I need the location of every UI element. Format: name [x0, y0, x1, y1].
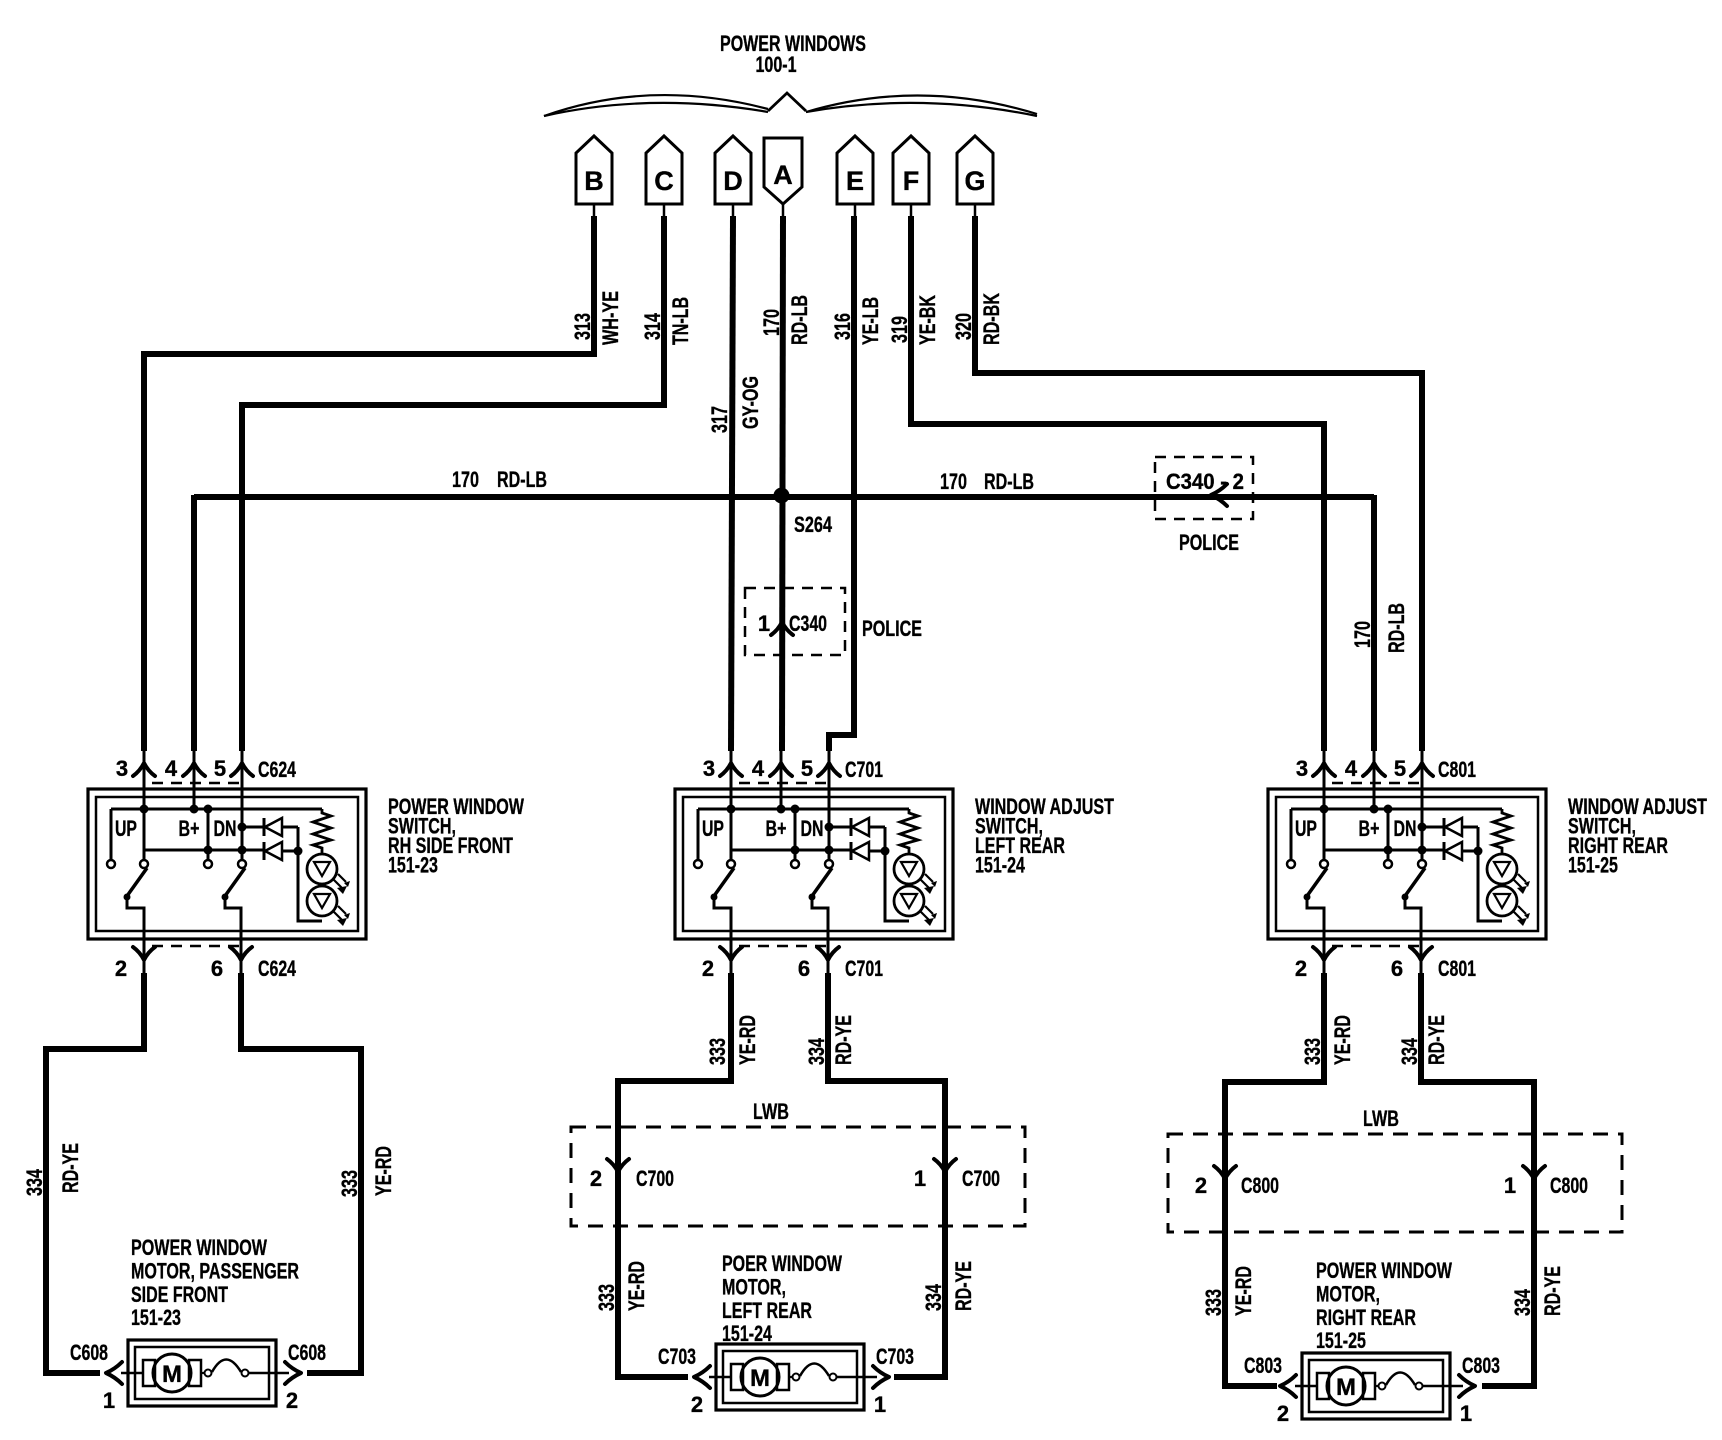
svg-text:316: 316	[830, 313, 855, 340]
svg-text:314: 314	[640, 312, 665, 340]
SW3 name label	[1568, 794, 1707, 878]
SW1 pin 3	[116, 751, 155, 860]
SW2 pin 6	[798, 947, 839, 981]
svg-text:MOTOR,: MOTOR,	[1316, 1281, 1380, 1306]
svg-text:317: 317	[707, 406, 732, 433]
svg-text:C700: C700	[636, 1166, 674, 1191]
SW3 lamp feed wire	[1474, 827, 1503, 921]
SW3 pin 4	[1345, 751, 1385, 809]
svg-text:M: M	[1336, 1374, 1356, 1401]
brace over connectors	[544, 93, 1037, 116]
SW1 UP pole contact	[140, 860, 148, 868]
connector C703 right arrow	[873, 1344, 914, 1417]
wire 319 YE-BK	[887, 216, 1324, 751]
SW3 diode D2	[1444, 842, 1478, 860]
svg-text:TN-LB: TN-LB	[668, 297, 693, 345]
svg-text:C608: C608	[288, 1340, 326, 1365]
SW2 B+ bus wire	[698, 808, 909, 811]
svg-text:SIDE FRONT: SIDE FRONT	[131, 1282, 228, 1307]
SW1 resistor	[313, 809, 331, 854]
M2 lead-in wires	[709, 1376, 877, 1379]
SW1 B+ center contact stub	[204, 809, 212, 868]
svg-text:B+: B+	[766, 816, 787, 841]
svg-text:RD-YE: RD-YE	[1540, 1266, 1565, 1316]
M3 brushes	[1317, 1373, 1375, 1399]
connector C608 left arrow	[70, 1340, 122, 1413]
svg-text:320: 320	[951, 313, 976, 340]
svg-text:RD-YE: RD-YE	[1424, 1015, 1449, 1065]
svg-text:333: 333	[705, 1038, 730, 1065]
SW3 lamp L2	[1487, 886, 1530, 926]
svg-text:RD-LB: RD-LB	[984, 469, 1034, 494]
SW3 crossbar wire	[1324, 849, 1445, 852]
connector pin C	[646, 136, 682, 217]
svg-text:DN: DN	[801, 816, 824, 841]
M3 armature M	[1327, 1367, 1365, 1405]
wire 170 RD-LB from pin A	[759, 216, 812, 751]
SW1 DN switch arm	[222, 868, 246, 973]
svg-text:151-23: 151-23	[131, 1305, 181, 1330]
svg-text:C624: C624	[258, 757, 297, 782]
SW1 B+ bus wire	[111, 808, 322, 811]
harness LWB right (C800)	[1168, 1106, 1622, 1232]
svg-text:LWB: LWB	[1363, 1106, 1399, 1131]
connector C624 dashed boundary top	[152, 782, 243, 785]
SW1 DN pole contact	[238, 860, 246, 868]
svg-text:2: 2	[1295, 956, 1307, 981]
SW1 name label	[388, 794, 524, 878]
svg-text:3: 3	[116, 756, 128, 781]
svg-text:C700: C700	[962, 1166, 1000, 1191]
svg-text:C703: C703	[876, 1344, 914, 1369]
svg-text:333: 333	[594, 1284, 619, 1311]
connector C700 pin 2	[590, 1159, 674, 1191]
connector C800 pin 2	[1195, 1166, 1279, 1198]
svg-text:333: 333	[1300, 1038, 1325, 1065]
SW3 UP switch arm	[1304, 868, 1328, 973]
SW3 pin 6	[1391, 947, 1432, 981]
M2 commutator terminals and jumper	[789, 1364, 837, 1381]
connector pin E	[837, 136, 873, 217]
svg-text:GY-OG: GY-OG	[738, 376, 763, 429]
svg-text:1: 1	[758, 611, 770, 636]
svg-text:170: 170	[940, 469, 967, 494]
wire 317 GY-OG	[707, 216, 763, 751]
svg-text:D: D	[723, 166, 743, 196]
SW3 pin 3	[1296, 751, 1335, 860]
wire 334 RD-YE left column	[22, 973, 144, 1373]
svg-text:C803: C803	[1244, 1353, 1282, 1378]
SW2 diode D1	[829, 818, 885, 836]
svg-text:POLICE: POLICE	[1179, 530, 1239, 555]
SW3 B+ center contact stub	[1384, 809, 1392, 868]
SW3 pin 5	[1394, 751, 1433, 860]
svg-text:2: 2	[702, 956, 714, 981]
SW3 DN switch arm	[1402, 868, 1426, 973]
svg-text:POER WINDOW: POER WINDOW	[722, 1251, 842, 1276]
svg-text:RD-LB: RD-LB	[1384, 603, 1409, 653]
svg-text:YE-RD: YE-RD	[1231, 1266, 1256, 1316]
svg-text:4: 4	[752, 756, 765, 781]
svg-text:6: 6	[798, 956, 810, 981]
svg-text:A: A	[773, 160, 793, 190]
SW2 resistor	[900, 809, 918, 854]
wire 313 WH-YE	[144, 216, 623, 751]
splice S264	[774, 488, 833, 538]
connector C701 dashed boundary top	[739, 782, 830, 785]
SW2 UP left throw contact	[694, 809, 702, 868]
SW2 body box	[675, 789, 953, 939]
svg-text:C801: C801	[1438, 956, 1476, 981]
SW1 pin 2	[115, 947, 155, 981]
svg-text:YE-RD: YE-RD	[371, 1146, 396, 1196]
svg-text:334: 334	[921, 1283, 946, 1311]
SW1 pin 4	[165, 751, 205, 809]
connector C624 dashed boundary bottom	[152, 945, 240, 948]
svg-text:UP: UP	[1295, 816, 1317, 841]
SW2 junction dots	[727, 805, 834, 855]
svg-text:C608: C608	[70, 1340, 108, 1365]
wire 334 RD-YE right column	[1397, 973, 1565, 1386]
svg-text:C703: C703	[658, 1344, 696, 1369]
SW2 pin 3	[703, 751, 742, 860]
svg-text:1: 1	[874, 1392, 886, 1417]
SW1 diode D1	[242, 818, 298, 836]
svg-text:170: 170	[1350, 621, 1375, 648]
svg-text:4: 4	[1345, 756, 1358, 781]
SW3 DN pole contact	[1418, 860, 1426, 868]
svg-text:2: 2	[691, 1392, 703, 1417]
SW2 B+ center contact stub	[791, 809, 799, 868]
svg-text:C800: C800	[1550, 1173, 1588, 1198]
SW3 B+ bus wire	[1291, 808, 1502, 811]
svg-text:RIGHT REAR: RIGHT REAR	[1316, 1305, 1416, 1330]
svg-text:170: 170	[759, 309, 784, 336]
svg-text:M: M	[750, 1365, 770, 1392]
svg-text:M: M	[162, 1361, 182, 1388]
svg-text:151-23: 151-23	[388, 853, 438, 878]
M3 body box	[1302, 1353, 1450, 1419]
svg-text:DN: DN	[214, 816, 237, 841]
svg-text:334: 334	[804, 1037, 829, 1065]
title POWER WINDOWS 100-1	[720, 31, 866, 77]
svg-text:5: 5	[801, 756, 813, 781]
M1 brushes	[143, 1360, 201, 1386]
svg-text:RD-YE: RD-YE	[951, 1261, 976, 1311]
M1 body box	[128, 1340, 276, 1406]
svg-text:RD-LB: RD-LB	[497, 467, 547, 492]
SW3 resistor	[1493, 809, 1511, 854]
svg-text:C801: C801	[1438, 757, 1476, 782]
connector pin A	[764, 138, 802, 217]
connector C803 right arrow	[1459, 1353, 1500, 1426]
SW1 lamp feed wire	[294, 827, 323, 921]
svg-text:UP: UP	[115, 816, 137, 841]
svg-text:YE-LB: YE-LB	[858, 297, 883, 345]
M3 lead-in wires	[1295, 1385, 1463, 1388]
SW1 pin 5	[214, 751, 253, 860]
SW2 DN switch arm	[809, 868, 833, 973]
M1 commutator terminals and jumper	[201, 1360, 249, 1377]
wire 170 RD-LB bus horizontal	[194, 467, 1409, 751]
svg-text:C803: C803	[1462, 1353, 1500, 1378]
svg-text:C340: C340	[789, 611, 827, 636]
connector C701 dashed boundary bottom	[739, 945, 827, 948]
svg-text:C340 - 2: C340 - 2	[1166, 469, 1244, 494]
SW2 name label	[975, 794, 1114, 878]
svg-text:F: F	[903, 166, 920, 196]
svg-text:313: 313	[570, 313, 595, 340]
svg-text:2: 2	[1277, 1401, 1289, 1426]
SW1 junction dots	[140, 805, 247, 855]
svg-text:334: 334	[1510, 1288, 1535, 1316]
SW2 DN pole contact	[825, 860, 833, 868]
connector C608 right arrow	[285, 1340, 326, 1413]
connector pin F	[893, 136, 929, 217]
svg-text:1: 1	[1504, 1173, 1516, 1198]
svg-text:151-24: 151-24	[722, 1321, 773, 1346]
SW2 UP pole contact	[727, 860, 735, 868]
connector C800 pin 1	[1504, 1166, 1588, 1198]
svg-text:334: 334	[22, 1168, 47, 1196]
SW1 lamp L2	[307, 886, 350, 926]
svg-text:YE-RD: YE-RD	[735, 1015, 760, 1065]
svg-text:E: E	[846, 166, 864, 196]
harness LWB center (C700)	[571, 1099, 1025, 1226]
svg-text:C800: C800	[1241, 1173, 1279, 1198]
SW2 lamp L1	[894, 854, 937, 894]
svg-text:4: 4	[165, 756, 178, 781]
svg-text:319: 319	[887, 316, 912, 343]
svg-text:RD-YE: RD-YE	[831, 1015, 856, 1065]
SW2 pin 2	[702, 947, 742, 981]
svg-text:C701: C701	[845, 757, 883, 782]
svg-text:G: G	[964, 166, 985, 196]
svg-text:MOTOR,: MOTOR,	[722, 1274, 786, 1299]
svg-text:YE-RD: YE-RD	[624, 1261, 649, 1311]
svg-text:333: 333	[1201, 1289, 1226, 1316]
connector C801 dashed boundary bottom	[1332, 945, 1420, 948]
svg-text:C624: C624	[258, 956, 297, 981]
svg-text:LWB: LWB	[753, 1099, 789, 1124]
svg-text:B: B	[584, 166, 604, 196]
M1 lead-in wires	[121, 1372, 289, 1375]
M3 commutator terminals and jumper	[1375, 1373, 1423, 1390]
wire 333 YE-RD left column	[241, 973, 396, 1373]
SW3 pin 2	[1295, 947, 1335, 981]
svg-text:UP: UP	[702, 816, 724, 841]
SW1 lamp L1	[307, 854, 350, 894]
svg-text:RD-YE: RD-YE	[58, 1143, 83, 1193]
connector pin D	[715, 136, 751, 217]
wire 333 YE-RD center column	[594, 973, 760, 1377]
connector pin G	[957, 136, 993, 217]
svg-text:1: 1	[914, 1166, 926, 1191]
svg-text:RD-LB: RD-LB	[787, 295, 812, 345]
svg-text:WH-YE: WH-YE	[598, 291, 623, 345]
M1 armature M	[153, 1354, 191, 1392]
svg-text:DN: DN	[1394, 816, 1417, 841]
SW3 UP pole contact	[1320, 860, 1328, 868]
svg-text:B+: B+	[1359, 816, 1380, 841]
M2 armature M	[741, 1358, 779, 1396]
svg-text:1: 1	[103, 1388, 115, 1413]
svg-text:333: 333	[337, 1170, 362, 1197]
M1 name label	[131, 1235, 299, 1330]
SW2 lamp L2	[894, 886, 937, 926]
SW1 UP left throw contact	[107, 809, 115, 868]
svg-text:151-25: 151-25	[1316, 1328, 1366, 1353]
svg-text:6: 6	[211, 956, 223, 981]
svg-text:2: 2	[286, 1388, 298, 1413]
svg-text:YE-BK: YE-BK	[915, 295, 940, 345]
M2 name label	[722, 1251, 842, 1346]
svg-text:C: C	[654, 166, 674, 196]
svg-text:334: 334	[1397, 1037, 1422, 1065]
svg-text:B+: B+	[179, 816, 200, 841]
svg-text:MOTOR, PASSENGER: MOTOR, PASSENGER	[131, 1258, 299, 1283]
wire 316 YE-LB	[829, 216, 883, 751]
M3 name label	[1316, 1258, 1452, 1353]
wire 334 RD-YE center column	[804, 973, 976, 1377]
svg-text:S264: S264	[794, 512, 833, 537]
wire 314 TN-LB	[242, 216, 693, 751]
svg-text:5: 5	[214, 756, 226, 781]
svg-text:3: 3	[703, 756, 715, 781]
connector C700 pin 1	[914, 1159, 1000, 1191]
connector C703 left arrow	[658, 1344, 710, 1417]
M2 body box	[716, 1344, 864, 1410]
svg-text:2: 2	[1195, 1173, 1207, 1198]
SW3 lamp L1	[1487, 854, 1530, 894]
SW3 diode D1	[1422, 818, 1478, 836]
SW2 UP switch arm	[711, 868, 735, 973]
SW1 UP switch arm	[124, 868, 148, 973]
svg-text:3: 3	[1296, 756, 1308, 781]
svg-text:LEFT REAR: LEFT REAR	[722, 1298, 812, 1323]
svg-text:1: 1	[1460, 1401, 1472, 1426]
wire 320 RD-BK	[951, 216, 1422, 751]
SW1 crossbar wire	[144, 849, 265, 852]
svg-text:RD-BK: RD-BK	[979, 293, 1004, 345]
svg-text:5: 5	[1394, 756, 1406, 781]
M2 brushes	[731, 1364, 789, 1390]
SW2 diode D2	[851, 842, 885, 860]
SW1 diode D2	[264, 842, 298, 860]
svg-text:151-25: 151-25	[1568, 853, 1618, 878]
SW2 pin 5	[801, 751, 840, 860]
connector C801 dashed boundary top	[1332, 782, 1423, 785]
svg-text:POWER WINDOW: POWER WINDOW	[1316, 1258, 1452, 1283]
SW3 body box	[1268, 789, 1546, 939]
svg-text:C701: C701	[845, 956, 883, 981]
svg-text:2: 2	[115, 956, 127, 981]
svg-text:POLICE: POLICE	[862, 616, 922, 641]
connector C340 pin 1 (POLICE)	[745, 588, 922, 655]
svg-text:6: 6	[1391, 956, 1403, 981]
svg-text:100-1: 100-1	[756, 52, 797, 77]
connector C803 left arrow	[1244, 1353, 1296, 1426]
connector pin B	[576, 136, 612, 217]
connector C340 pin 2 (POLICE)	[1155, 457, 1253, 555]
SW3 junction dots	[1320, 805, 1427, 855]
wire 333 YE-RD right column	[1201, 973, 1355, 1386]
svg-text:YE-RD: YE-RD	[1330, 1015, 1355, 1065]
SW2 pin 4	[752, 751, 792, 809]
SW2 lamp feed wire	[881, 827, 910, 921]
SW3 UP left throw contact	[1287, 809, 1295, 868]
SW2 crossbar wire	[731, 849, 852, 852]
svg-text:POWER WINDOW: POWER WINDOW	[131, 1235, 267, 1260]
svg-text:151-24: 151-24	[975, 853, 1026, 878]
SW1 pin 6	[211, 947, 252, 981]
svg-text:170: 170	[452, 467, 479, 492]
svg-text:2: 2	[590, 1166, 602, 1191]
SW1 body box	[88, 789, 366, 939]
